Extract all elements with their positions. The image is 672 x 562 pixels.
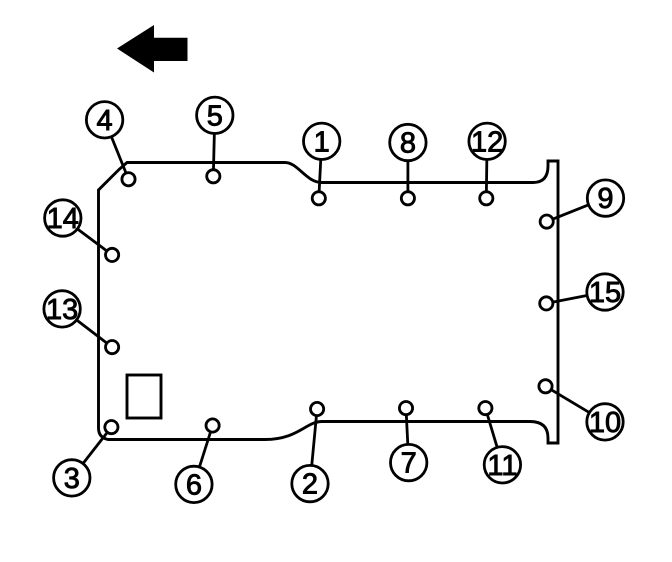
svg-text:2: 2 (302, 469, 318, 501)
leader wire 1 (319, 141, 322, 198)
leader wire 8 (406, 143, 409, 199)
svg-text:9: 9 (597, 183, 613, 215)
leader wire 14 (63, 218, 112, 255)
leader wire 4 (105, 120, 129, 179)
callout 9 (587, 180, 623, 216)
callout 1 (304, 123, 340, 159)
callout 14 (45, 200, 81, 236)
bolt hole 2 (311, 402, 324, 415)
leader wire 11 (485, 408, 502, 465)
drain plug rectangle (127, 375, 161, 418)
front direction arrow (117, 25, 188, 73)
callout 4 (86, 102, 122, 138)
bolt hole 8 (401, 192, 414, 205)
callout 8 (390, 124, 426, 160)
leader wire 12 (485, 141, 489, 198)
leader wire 10 (546, 386, 606, 422)
svg-text:3: 3 (64, 463, 80, 495)
callout 3 (54, 460, 90, 496)
svg-text:11: 11 (487, 450, 517, 482)
svg-text:10: 10 (589, 407, 621, 439)
bolt hole 7 (399, 402, 412, 415)
oil pan gasket outline (99, 161, 559, 443)
bolt hole 13 (106, 341, 119, 354)
svg-text:12: 12 (471, 126, 503, 158)
bolt hole 6 (206, 419, 219, 432)
callout 13 (44, 291, 80, 327)
leader wire 15 (546, 292, 605, 303)
svg-text:15: 15 (589, 277, 621, 309)
callout 15 (587, 274, 623, 310)
bolt hole 3 (105, 421, 118, 434)
svg-text:4: 4 (97, 105, 113, 137)
callout 10 (587, 404, 623, 440)
callout 7 (391, 444, 427, 480)
svg-text:13: 13 (46, 294, 78, 326)
leader wire 9 (547, 198, 606, 222)
svg-text:5: 5 (207, 100, 223, 132)
callout 2 (292, 465, 328, 501)
leader wire 13 (62, 309, 112, 347)
callout 6 (176, 466, 212, 502)
leader wire 3 (72, 427, 112, 478)
svg-text:7: 7 (401, 448, 417, 480)
bolt hole 5 (207, 170, 220, 183)
bolt hole 15 (540, 297, 553, 310)
bolt hole 10 (539, 380, 552, 393)
callout 5 (197, 97, 233, 133)
bolt hole 11 (479, 402, 492, 415)
leader wire 6 (194, 426, 213, 485)
callout 11 (484, 447, 520, 483)
bolt hole 12 (480, 192, 493, 205)
bolt hole 4 (122, 173, 135, 186)
svg-text:6: 6 (186, 469, 202, 501)
svg-text:1: 1 (314, 126, 330, 158)
leader wire 2 (310, 409, 317, 484)
bolt hole 14 (106, 248, 119, 261)
callout 12 (469, 123, 505, 159)
bolt hole 9 (540, 215, 553, 228)
bolt hole 1 (312, 192, 325, 205)
leader wire 5 (213, 115, 215, 176)
leader wire 7 (406, 408, 409, 463)
svg-text:8: 8 (400, 128, 416, 160)
svg-text:14: 14 (47, 203, 79, 235)
